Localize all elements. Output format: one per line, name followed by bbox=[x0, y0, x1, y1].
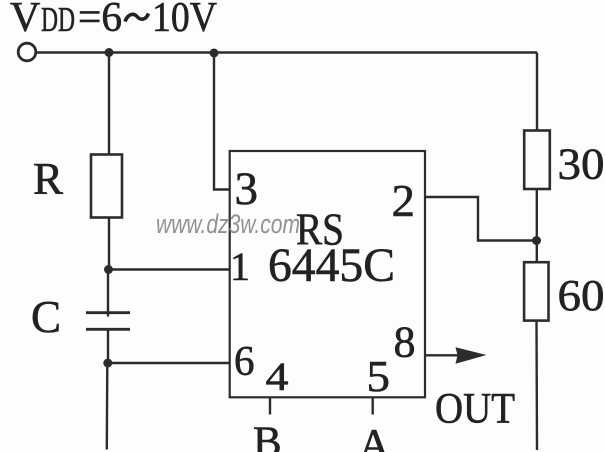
svg-text:4: 4 bbox=[266, 354, 289, 399]
wire resistor60 down bbox=[535, 321, 538, 450]
junction node 6 bbox=[103, 359, 112, 368]
svg-text:A: A bbox=[359, 420, 391, 452]
wire node1 to IC pin 1 bbox=[109, 268, 231, 270]
pin 4 stub bbox=[269, 398, 271, 415]
svg-text:2: 2 bbox=[392, 176, 416, 226]
svg-text:V: V bbox=[10, 0, 40, 41]
svg-text:60: 60 bbox=[558, 271, 605, 320]
svg-text:8: 8 bbox=[394, 318, 416, 367]
svg-text:5: 5 bbox=[367, 352, 391, 401]
terminal VDD open circle bbox=[18, 43, 36, 61]
wire node6 to IC pin 6 bbox=[108, 362, 230, 364]
resistor 60 body bbox=[524, 262, 548, 320]
svg-text:3: 3 bbox=[235, 163, 259, 215]
junction node 1 bbox=[104, 265, 113, 274]
wire top VDD rail bbox=[36, 51, 537, 53]
svg-text:=6: =6 bbox=[78, 0, 122, 41]
resistor 30 body bbox=[524, 131, 550, 190]
pin 5 stub bbox=[372, 398, 374, 415]
capacitor C bottom plate bbox=[86, 328, 130, 331]
arrow OUT head bbox=[456, 347, 487, 364]
label VDD=6~10V bbox=[10, 0, 217, 41]
wire C bottom to node6 bbox=[107, 329, 109, 364]
resistor R body bbox=[91, 155, 122, 218]
op-amp IC U1 RS6445C body bbox=[230, 151, 425, 397]
wire pin 8 output bbox=[425, 354, 462, 356]
svg-text:10V: 10V bbox=[152, 0, 217, 41]
svg-text:30: 30 bbox=[558, 140, 605, 189]
wire pin 3 branch from VDD rail bbox=[214, 53, 230, 190]
svg-text:www.dz3w.com: www.dz3w.com bbox=[156, 209, 300, 239]
svg-text:R: R bbox=[33, 154, 63, 204]
junction divider node bbox=[532, 236, 541, 245]
wire pin2 to divider node bbox=[425, 197, 537, 241]
wire R bottom to node1 bbox=[108, 218, 110, 271]
junction pin3 branch bbox=[210, 49, 219, 58]
wire resistor30 to resistor60 bbox=[536, 189, 538, 263]
svg-text:C: C bbox=[31, 292, 61, 342]
svg-text:OUT: OUT bbox=[435, 386, 515, 433]
wire VDD rail down to resistor 30 bbox=[536, 53, 538, 132]
svg-text:6: 6 bbox=[234, 339, 255, 385]
wire node6 down bbox=[106, 363, 109, 450]
svg-text:B: B bbox=[253, 419, 282, 452]
svg-text:1: 1 bbox=[230, 244, 250, 289]
junction top of R bbox=[105, 48, 114, 57]
svg-text:6445C: 6445C bbox=[268, 239, 395, 292]
wire node1 down to capacitor C bbox=[107, 270, 109, 317]
svg-text:DD: DD bbox=[41, 0, 75, 39]
wire VDD rail to resistor R bbox=[108, 53, 110, 156]
capacitor C top plate bbox=[86, 311, 130, 314]
